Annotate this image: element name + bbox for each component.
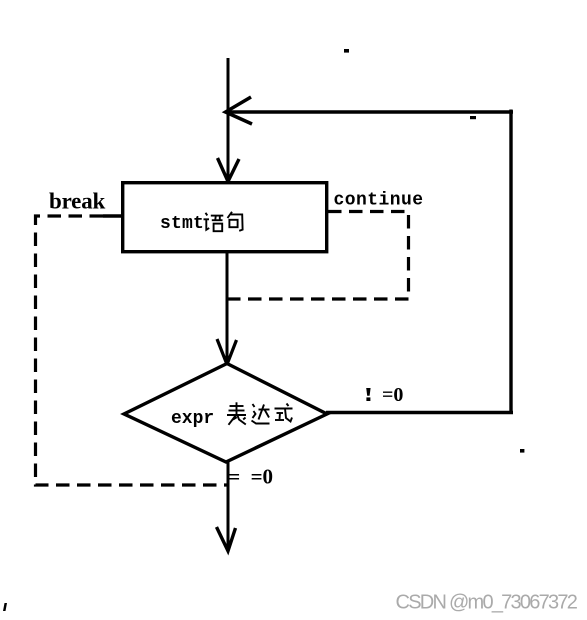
- wire: loop-back horizontal top: [226, 110, 513, 113]
- svg-text:=: =: [228, 465, 240, 489]
- arrowhead: exit (pointing down): [217, 527, 236, 551]
- svg-text:=0: =0: [251, 465, 273, 489]
- stray mark: dot top middle: [344, 49, 349, 53]
- wire: break stub (solid) from box left edge: [103, 214, 122, 218]
- wire: top entry vertical into stmt box: [227, 58, 230, 181]
- glyph: 语: [204, 213, 224, 231]
- wire: loop-back vertical right side: [509, 110, 512, 415]
- glyph: 式: [275, 404, 293, 422]
- stray mark: dot right of diamond: [520, 449, 524, 453]
- glyph: 句: [228, 212, 243, 231]
- wire: exit vertical below diamond: [227, 462, 230, 549]
- glyph: 表: [227, 402, 246, 425]
- arrowhead: into stmt box (pointing down): [218, 158, 240, 182]
- svg-text:continue: continue: [334, 191, 424, 211]
- svg-text:stmt: stmt: [160, 214, 204, 234]
- svg-text:break: break: [49, 189, 105, 214]
- wire: diamond true-branch horizontal to right side: [326, 411, 513, 414]
- svg-text:expr: expr: [171, 409, 214, 429]
- wire: continue dashed path (right, down, left to mid line): [228, 212, 409, 300]
- label: ! =0 condition: [366, 388, 370, 396]
- wire: stmt box to diamond vertical: [226, 252, 229, 364]
- process box: stmt statement rectangle: [123, 183, 327, 252]
- wire: break dashed path (left, down, right to exit line): [36, 216, 229, 485]
- svg-text:=0: =0: [382, 384, 403, 406]
- stray mark: comma bottom-left: [3, 603, 7, 611]
- decision diamond: expr: [124, 364, 327, 463]
- svg-text:CSDN @m0_73067372: CSDN @m0_73067372: [396, 592, 578, 614]
- stray mark: dash near top-right corner: [470, 116, 476, 119]
- glyph: 达: [252, 404, 270, 424]
- arrowhead: loop-back into entry line (pointing left): [226, 97, 253, 124]
- arrowhead: into diamond (pointing down): [217, 339, 237, 365]
